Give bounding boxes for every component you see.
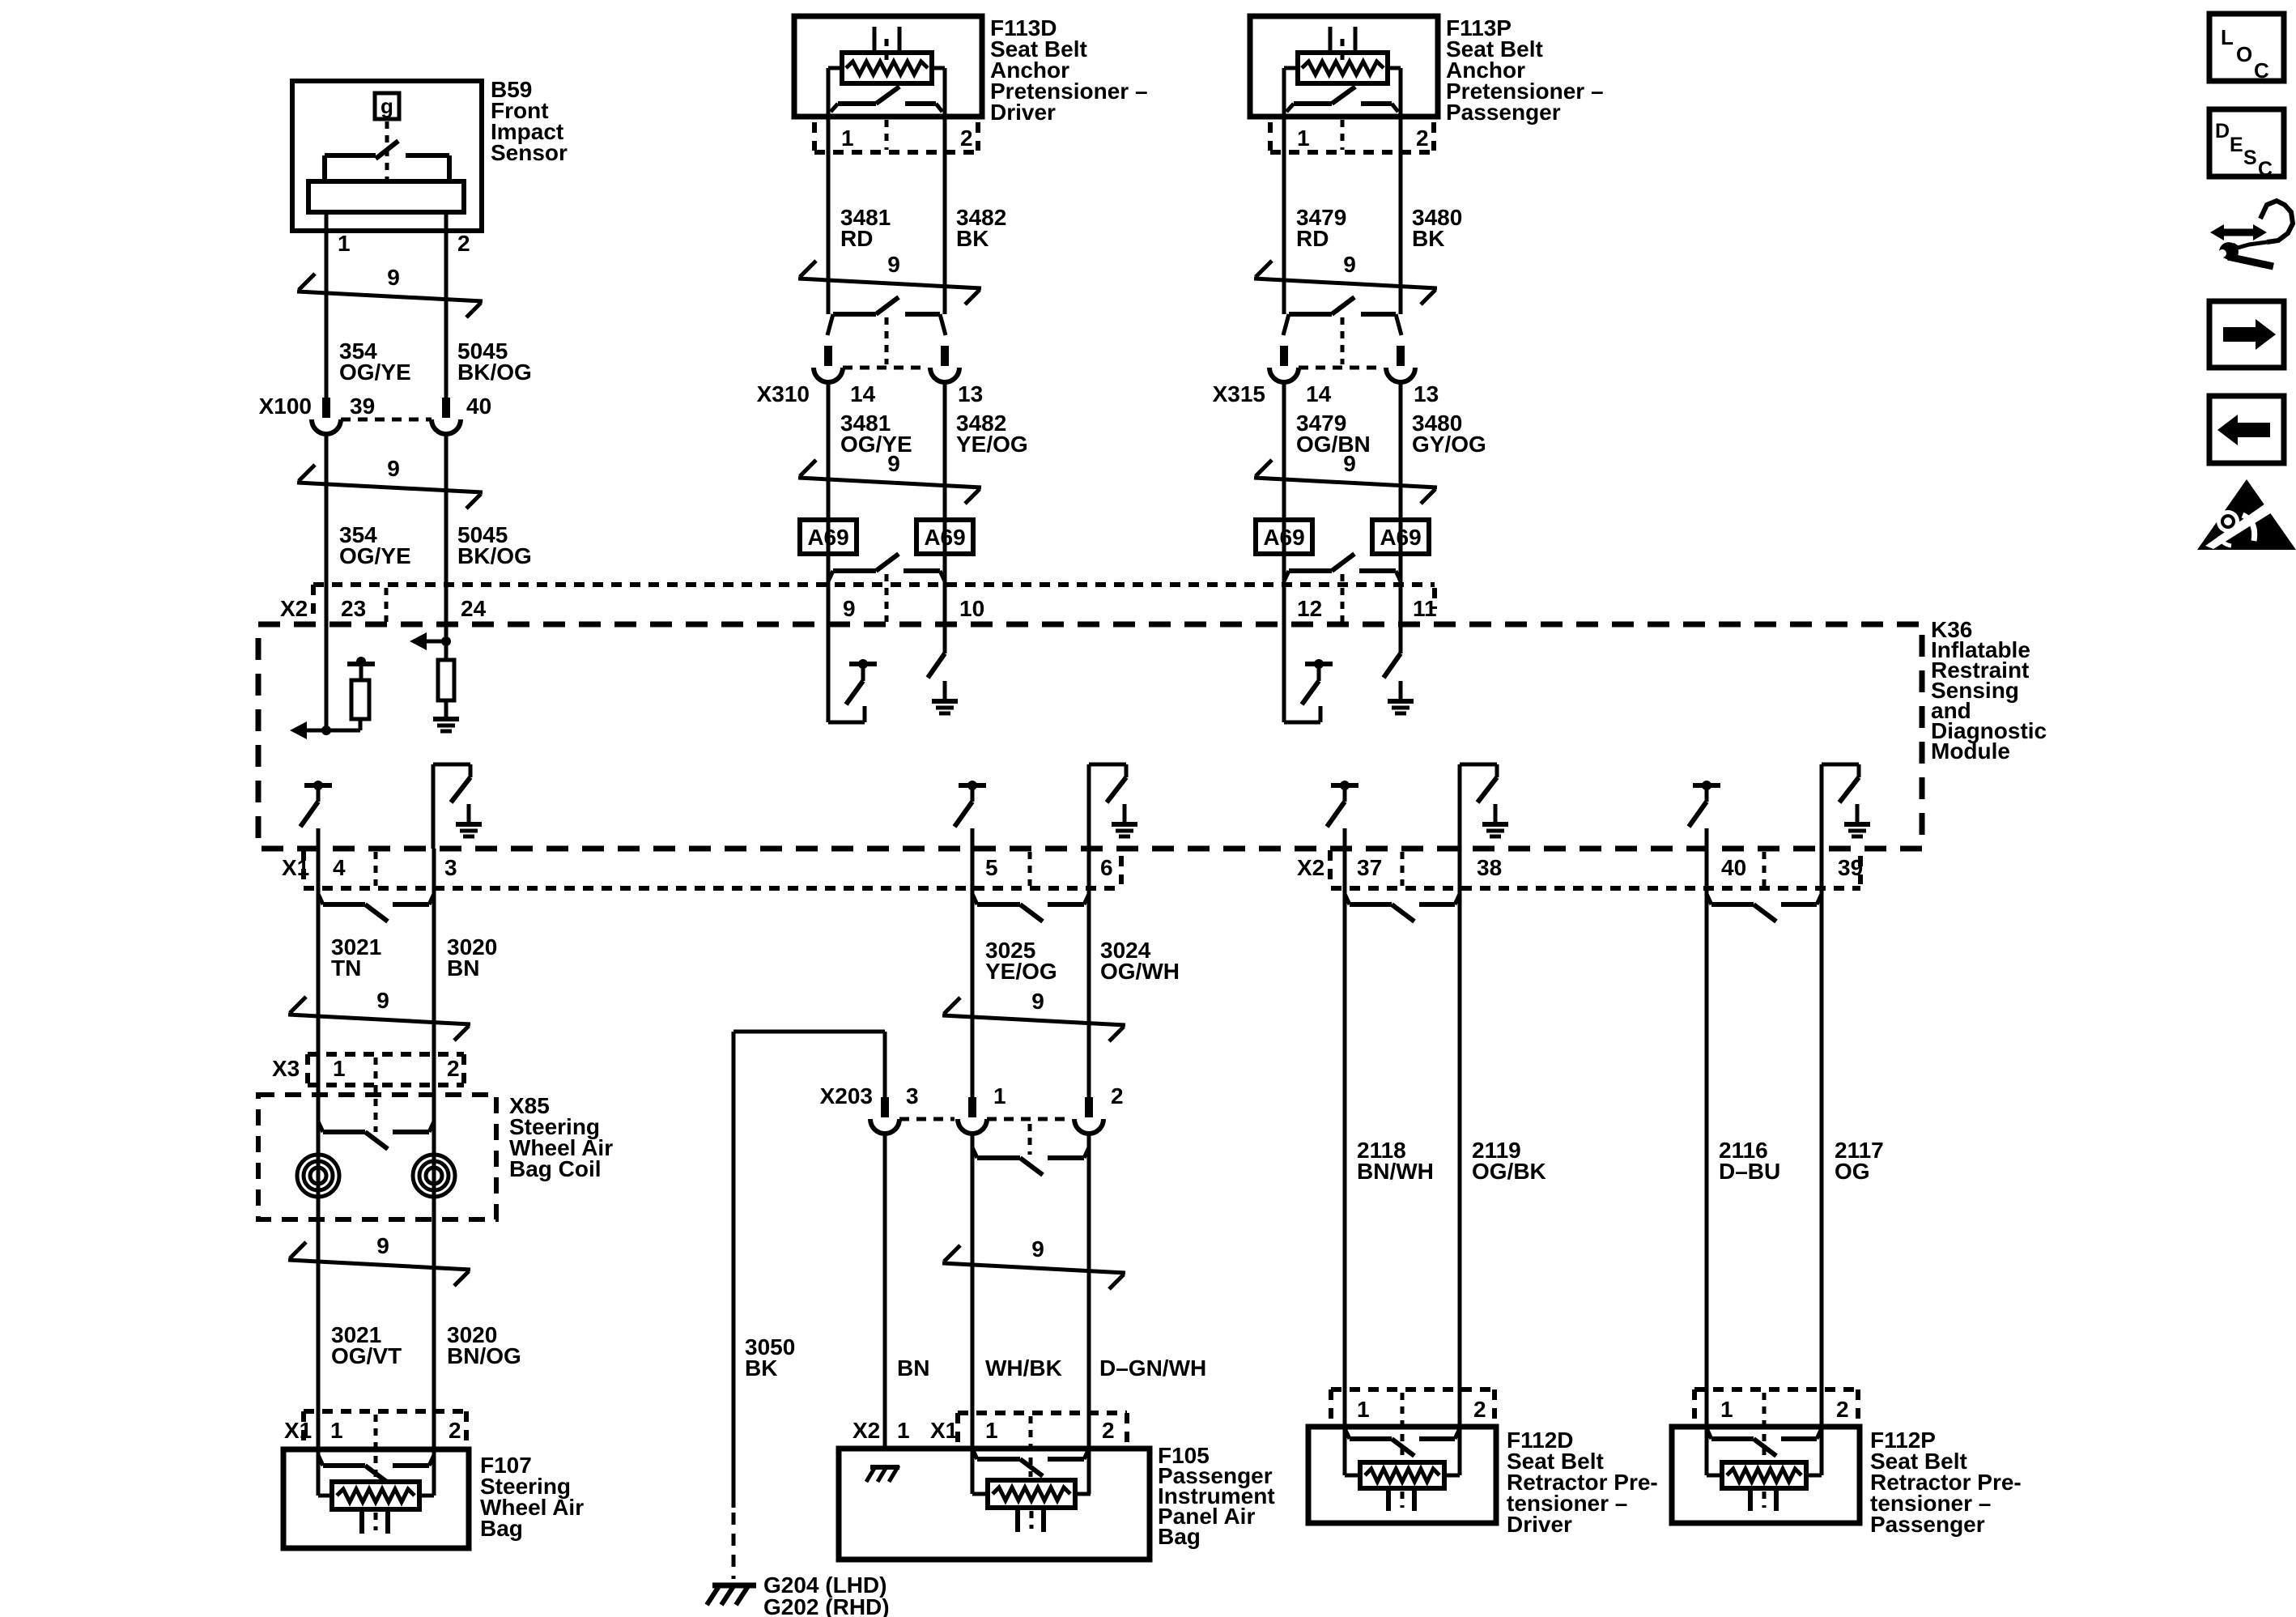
svg-text:Passenger: Passenger <box>1870 1512 1985 1537</box>
svg-text:9: 9 <box>1031 989 1044 1014</box>
svg-text:1: 1 <box>333 1056 346 1081</box>
svg-text:E: E <box>2230 134 2243 156</box>
svg-text:38: 38 <box>1477 855 1502 880</box>
svg-text:9: 9 <box>1343 252 1356 277</box>
svg-text:9: 9 <box>376 1233 389 1258</box>
svg-text:2: 2 <box>447 1056 460 1081</box>
svg-text:YE/OG: YE/OG <box>985 959 1057 984</box>
svg-text:A69: A69 <box>807 525 848 550</box>
svg-text:23: 23 <box>341 596 366 621</box>
svg-text:S: S <box>2243 147 2257 169</box>
svg-text:A69: A69 <box>924 525 965 550</box>
svg-text:BN/OG: BN/OG <box>447 1343 521 1368</box>
svg-text:A69: A69 <box>1380 525 1421 550</box>
svg-text:12: 12 <box>1297 596 1322 621</box>
svg-text:BN/WH: BN/WH <box>1357 1159 1434 1184</box>
svg-text:1: 1 <box>338 231 351 256</box>
svg-text:OG/YE: OG/YE <box>840 432 912 457</box>
svg-text:13: 13 <box>958 381 983 406</box>
svg-text:4: 4 <box>333 855 346 880</box>
svg-text:X2: X2 <box>280 596 308 621</box>
svg-text:OG/VT: OG/VT <box>331 1343 402 1368</box>
svg-text:X203: X203 <box>820 1083 873 1108</box>
svg-text:2: 2 <box>1111 1083 1124 1108</box>
svg-text:X2: X2 <box>852 1418 880 1443</box>
svg-text:BK: BK <box>1412 226 1444 251</box>
svg-text:1: 1 <box>1357 1397 1370 1422</box>
svg-text:O: O <box>2236 42 2252 66</box>
svg-text:14: 14 <box>850 381 876 406</box>
svg-text:40: 40 <box>1721 855 1746 880</box>
svg-text:GY/OG: GY/OG <box>1412 432 1486 457</box>
svg-text:OG/BK: OG/BK <box>1472 1159 1546 1184</box>
svg-text:1: 1 <box>841 126 854 151</box>
svg-text:C: C <box>2254 58 2269 83</box>
svg-text:BK/OG: BK/OG <box>457 360 532 385</box>
svg-text:BN: BN <box>897 1355 929 1381</box>
svg-text:9: 9 <box>887 252 900 277</box>
svg-text:g: g <box>381 94 393 118</box>
svg-text:OG/WH: OG/WH <box>1100 959 1180 984</box>
svg-text:L: L <box>2221 25 2234 49</box>
svg-text:9: 9 <box>387 265 400 290</box>
svg-text:2: 2 <box>1836 1397 1849 1422</box>
svg-text:2: 2 <box>457 231 470 256</box>
svg-text:X3: X3 <box>272 1056 300 1081</box>
svg-text:WH/BK: WH/BK <box>985 1355 1062 1381</box>
svg-text:2: 2 <box>1102 1418 1115 1443</box>
svg-text:Module: Module <box>1931 738 2010 764</box>
svg-text:40: 40 <box>466 394 491 419</box>
svg-text:Driver: Driver <box>1507 1512 1572 1537</box>
svg-text:3: 3 <box>444 855 457 880</box>
svg-text:D: D <box>2215 120 2230 143</box>
svg-text:Bag Coil: Bag Coil <box>509 1156 602 1181</box>
svg-text:BK: BK <box>745 1355 777 1381</box>
svg-text:9: 9 <box>887 451 900 476</box>
svg-text:24: 24 <box>461 596 487 621</box>
svg-text:OG: OG <box>1835 1159 1870 1184</box>
svg-text:RD: RD <box>1296 226 1329 251</box>
svg-text:X2: X2 <box>1297 855 1324 880</box>
svg-text:X315: X315 <box>1213 381 1265 406</box>
svg-text:A69: A69 <box>1263 525 1304 550</box>
svg-text:BN: BN <box>447 955 479 981</box>
svg-text:1: 1 <box>1297 126 1310 151</box>
svg-text:2: 2 <box>960 126 973 151</box>
svg-text:1: 1 <box>1720 1397 1733 1422</box>
svg-text:Passenger: Passenger <box>1446 100 1561 125</box>
svg-text:6: 6 <box>1100 855 1113 880</box>
svg-text:1: 1 <box>897 1418 910 1443</box>
svg-text:1: 1 <box>993 1083 1006 1108</box>
svg-text:Bag: Bag <box>1158 1524 1201 1549</box>
svg-text:C: C <box>2258 158 2273 181</box>
svg-text:39: 39 <box>1838 855 1863 880</box>
svg-text:9: 9 <box>376 988 389 1013</box>
svg-text:D–GN/WH: D–GN/WH <box>1099 1355 1206 1381</box>
svg-text:Driver: Driver <box>990 100 1056 125</box>
svg-text:BK: BK <box>956 226 989 251</box>
svg-text:OG/YE: OG/YE <box>339 543 411 568</box>
svg-text:37: 37 <box>1357 855 1382 880</box>
svg-text:X100: X100 <box>259 394 312 419</box>
svg-text:9: 9 <box>1343 451 1356 476</box>
svg-text:1: 1 <box>330 1418 343 1443</box>
svg-text:OG/BN: OG/BN <box>1296 432 1371 457</box>
svg-text:39: 39 <box>350 394 375 419</box>
svg-text:9: 9 <box>387 456 400 481</box>
svg-text:BK/OG: BK/OG <box>457 543 532 568</box>
svg-text:9: 9 <box>1031 1236 1044 1262</box>
svg-text:X1: X1 <box>930 1418 958 1443</box>
svg-text:RD: RD <box>840 226 873 251</box>
svg-text:X1: X1 <box>284 1418 312 1443</box>
svg-text:D–BU: D–BU <box>1719 1159 1780 1184</box>
svg-text:11: 11 <box>1413 596 1437 621</box>
svg-text:2: 2 <box>449 1418 461 1443</box>
svg-text:YE/OG: YE/OG <box>956 432 1028 457</box>
svg-text:Bag: Bag <box>480 1516 523 1541</box>
svg-text:G202 (RHD): G202 (RHD) <box>763 1594 890 1617</box>
svg-text:9: 9 <box>843 596 856 621</box>
svg-text:13: 13 <box>1414 381 1439 406</box>
svg-text:10: 10 <box>959 596 984 621</box>
svg-text:2: 2 <box>1473 1397 1486 1422</box>
svg-text:2: 2 <box>1416 126 1429 151</box>
svg-text:3: 3 <box>906 1083 919 1108</box>
svg-text:Sensor: Sensor <box>491 140 568 165</box>
svg-text:TN: TN <box>331 955 361 981</box>
svg-text:5: 5 <box>985 855 998 880</box>
svg-text:OG/YE: OG/YE <box>339 360 411 385</box>
svg-text:1: 1 <box>985 1418 998 1443</box>
svg-text:14: 14 <box>1306 381 1332 406</box>
svg-text:X310: X310 <box>757 381 810 406</box>
